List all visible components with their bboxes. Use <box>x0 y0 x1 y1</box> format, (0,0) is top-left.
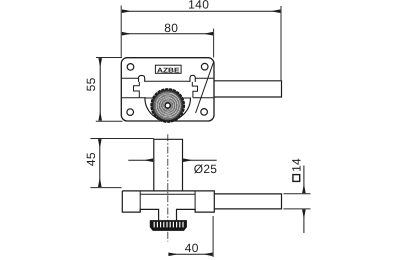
diameter 25 leader left <box>128 159 153 161</box>
dimension 55 extension line bottom <box>96 120 123 122</box>
square 14 extension bottom <box>283 208 310 210</box>
lock plate outline <box>121 58 214 121</box>
AZBE label plate <box>155 65 181 73</box>
screw hole bottom-right <box>201 109 208 116</box>
dimension 45 extension bottom <box>90 187 121 189</box>
latch notch right <box>192 82 197 98</box>
knurled wheel dark ring <box>153 91 182 120</box>
svg-text:80: 80 <box>164 21 178 35</box>
thumb knob body <box>150 221 186 231</box>
svg-text:45: 45 <box>84 152 98 166</box>
staple left <box>139 75 145 82</box>
knurled wheel texture moire rings <box>155 92 182 118</box>
bolt bar top view <box>214 81 282 97</box>
bolt bar lower view <box>214 194 281 209</box>
wheel saddle housing <box>145 98 191 121</box>
screw hole top-left <box>127 64 134 71</box>
dimension 140 extension line left <box>120 6 122 57</box>
square 14 dimension line upper <box>303 166 305 194</box>
dimension 80 extension line right <box>213 29 215 58</box>
svg-text:55: 55 <box>84 77 98 91</box>
dimension 40 extension right <box>212 216 214 257</box>
svg-text:40: 40 <box>185 241 199 255</box>
knurled wheel center hole <box>165 103 170 108</box>
svg-text:14: 14 <box>289 158 303 172</box>
screw hole bottom-left <box>127 109 134 116</box>
cylinder housing lower view <box>154 139 183 191</box>
dimension 45 extension top <box>90 138 153 140</box>
knurled wheel outer teeth <box>151 89 184 122</box>
plate edge division right <box>194 191 196 212</box>
dimension 55 line <box>99 58 101 120</box>
latch bottom line right <box>193 97 214 99</box>
plate edge profile lower view <box>122 191 214 221</box>
staple right <box>190 75 195 82</box>
svg-text:AZBE: AZBE <box>157 67 180 74</box>
dimension 140 line <box>122 10 280 12</box>
knurled wheel texture rings <box>154 92 181 119</box>
latch notch left <box>134 82 140 98</box>
dimension 40 line <box>169 253 213 255</box>
spring diagonal <box>196 62 214 113</box>
diameter 25 leader right <box>183 159 216 161</box>
square 14 extension top <box>283 193 310 195</box>
screw hole top-right <box>201 63 208 70</box>
plate edge division left <box>139 191 141 212</box>
svg-text:Ø25: Ø25 <box>194 162 217 176</box>
dimension 55 extension line top <box>96 57 122 59</box>
latch guide line right <box>195 77 213 79</box>
latch guide line left <box>122 77 139 79</box>
square 14 dimension line lower <box>303 210 305 233</box>
center line lower view <box>167 134 169 241</box>
dimension 80 line <box>122 33 213 35</box>
dimension 140 extension line right <box>280 6 282 80</box>
latch bottom line left <box>122 97 146 99</box>
svg-text:140: 140 <box>188 0 209 12</box>
latch bar line middle <box>145 80 190 82</box>
knurled wheel rim <box>153 90 183 120</box>
bolt slide through plate top line <box>140 193 195 195</box>
square 14 symbol <box>293 175 300 182</box>
dimension 45 line <box>99 139 101 187</box>
thumb knob knurl slits <box>154 222 183 228</box>
